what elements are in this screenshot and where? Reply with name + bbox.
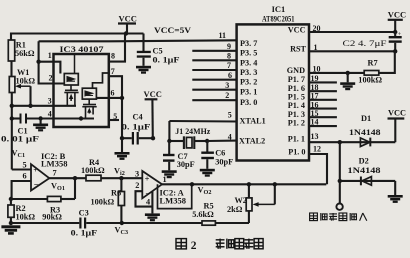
wire pin20 to VCC	[309, 31, 395, 33]
gate B glyph	[85, 91, 93, 96]
svg-text:2: 2	[135, 181, 139, 190]
resistor R3 feedback	[11, 178, 75, 221]
wire pin1 RST	[309, 50, 395, 52]
svg-text:2kΩ: 2kΩ	[227, 205, 243, 214]
svg-text:P1. 2: P1. 2	[288, 119, 305, 128]
wire Vo1 output line	[49, 177, 86, 179]
ground below C1/pin4	[33, 124, 48, 132]
wire R1 to W1	[10, 61, 12, 77]
svg-text:0. 1μF: 0. 1μF	[153, 55, 180, 64]
svg-text:−: −	[34, 180, 39, 190]
capacitor C3	[11, 208, 202, 237]
node pin4/mosfet2	[79, 116, 83, 120]
svg-text:100kΩ: 100kΩ	[81, 166, 105, 175]
wire pin10 GND	[309, 72, 348, 74]
wire pin6 feedback	[12, 181, 31, 199]
capacitor C7	[163, 141, 195, 170]
node pin6/pin7 tie	[120, 96, 124, 100]
node pin10/ground	[346, 71, 350, 75]
svg-text:P1. 7: P1. 7	[288, 75, 305, 84]
IC1 left inside labels	[239, 39, 266, 146]
svg-text:XTAL1: XTAL1	[240, 117, 266, 126]
IC1 right pin stubs 19-14	[309, 82, 337, 126]
svg-text:0. 01 μF: 0. 01 μF	[1, 134, 39, 143]
svg-text:AT89C2051: AT89C2051	[262, 14, 295, 24]
svg-text:2: 2	[225, 91, 229, 100]
svg-text:VCC: VCC	[388, 9, 406, 19]
wire long P3.7 line from IC3 to IC1	[39, 40, 237, 41]
wire Vo2 output line	[162, 183, 326, 185]
svg-text:1N4148: 1N4148	[349, 128, 381, 137]
svg-text:C5: C5	[153, 47, 163, 56]
wire IC3 pin4	[27, 117, 94, 119]
svg-text:0. 1μF: 0. 1μF	[71, 228, 98, 237]
node R6 bottom	[120, 221, 124, 225]
ground below C7	[162, 170, 177, 178]
wire pin4 stem	[151, 191, 153, 213]
caption 图2 电路原理图	[176, 239, 263, 252]
wire IC3 pin1	[39, 62, 61, 74]
svg-text:8: 8	[227, 51, 231, 60]
capacitor C4	[122, 113, 154, 145]
svg-text:P3. 7: P3. 7	[240, 39, 257, 48]
svg-text:C6: C6	[215, 149, 225, 158]
wire C4 left to ground	[121, 138, 123, 152]
op-amp IC2:B	[23, 151, 68, 191]
IC1 right inside labels	[287, 25, 307, 156]
IC1 right pin numbers	[311, 24, 322, 154]
svg-text:C3: C3	[79, 208, 89, 217]
svg-text:9: 9	[227, 42, 231, 51]
svg-text:8: 8	[111, 52, 115, 61]
ground below C5	[136, 66, 151, 74]
wire D2 to ground	[394, 181, 396, 195]
svg-text:W2: W2	[235, 196, 247, 205]
svg-text:90kΩ: 90kΩ	[42, 212, 62, 221]
node R2 top	[9, 197, 13, 201]
node frame corner	[190, 182, 194, 186]
svg-text:4: 4	[48, 110, 52, 119]
svg-text:6: 6	[23, 171, 27, 180]
svg-text:D2: D2	[359, 156, 369, 165]
svg-text:D1: D1	[361, 114, 371, 123]
capacitor C1	[1, 114, 39, 144]
resistor R2	[8, 199, 36, 223]
IC IC1 AT89C2051 box	[237, 24, 309, 160]
potentiometer W2	[227, 184, 275, 223]
svg-text:+: +	[398, 31, 402, 38]
node VCC junction	[124, 31, 128, 35]
output MOSFET A	[64, 85, 78, 106]
svg-text:IC3 40107: IC3 40107	[60, 44, 105, 54]
wire XTAL1 pin5	[169, 120, 236, 123]
svg-text:P3. 1: P3. 1	[240, 88, 257, 97]
pin number labels IC3 left	[48, 51, 53, 118]
svg-text:GND: GND	[287, 66, 305, 75]
gate A glyph	[67, 77, 75, 82]
node wiper top	[273, 182, 277, 186]
svg-text:1N4148: 1N4148	[348, 166, 381, 175]
svg-text:P1. 0: P1. 0	[288, 147, 305, 156]
node crystal left	[167, 139, 171, 143]
diode D1	[340, 114, 396, 147]
svg-text:1: 1	[48, 51, 52, 60]
svg-text:2: 2	[49, 74, 53, 83]
pin number labels IC3 right	[111, 52, 118, 121]
svg-text:R5: R5	[204, 201, 214, 210]
wire pin10 ground stem	[347, 73, 349, 82]
svg-text:P1. 3: P1. 3	[288, 110, 305, 119]
node C4 left	[120, 136, 124, 140]
svg-text:10kΩ: 10kΩ	[16, 77, 36, 86]
op-amp IC2:A	[135, 169, 167, 206]
svg-text:7: 7	[111, 67, 115, 76]
wire D1 to VCC	[394, 119, 396, 143]
svg-text:VCC: VCC	[388, 108, 406, 117]
potentiometer W1	[9, 68, 35, 106]
IC IC3 40107 outer box	[54, 54, 109, 127]
wire left rail below W1	[11, 93, 13, 170]
svg-text:+: +	[145, 173, 150, 183]
svg-text:5: 5	[228, 110, 232, 119]
power VCC symbol top-left	[118, 14, 137, 34]
wire gate A vdd	[74, 54, 76, 74]
svg-text:0. 1μF: 0. 1μF	[122, 123, 151, 132]
node W2 top	[247, 182, 251, 186]
svg-text:P1. 5: P1. 5	[288, 92, 305, 101]
svg-text:LM358: LM358	[160, 195, 186, 205]
node pin1 tap	[36, 60, 40, 64]
svg-text:XTAL2: XTAL2	[239, 136, 265, 145]
svg-text:56kΩ: 56kΩ	[15, 49, 35, 58]
capacitor C6	[201, 141, 233, 169]
svg-text:5: 5	[23, 160, 27, 169]
node R2 bottom	[9, 221, 13, 225]
svg-text:7: 7	[227, 61, 231, 70]
svg-text:LM358: LM358	[41, 158, 67, 168]
output MOSFET B	[82, 99, 96, 118]
svg-text:30pF: 30pF	[215, 157, 233, 166]
power VCC symbol above C4	[144, 89, 162, 138]
svg-text:R7: R7	[368, 59, 378, 68]
wire IC3 pin8 to VCC rail	[109, 34, 125, 62]
svg-text:C2 4. 7μF: C2 4. 7μF	[343, 38, 387, 48]
ground below C4	[115, 152, 130, 160]
resistor R7	[348, 59, 383, 85]
svg-text:R6: R6	[111, 188, 121, 197]
capacitor C5	[137, 34, 180, 66]
svg-text:5.6kΩ: 5.6kΩ	[192, 210, 214, 219]
power VCC symbol top right	[388, 9, 406, 32]
ground below C6	[200, 169, 215, 177]
node clamp top	[338, 140, 342, 144]
svg-text:7: 7	[53, 168, 57, 177]
resistor R5	[192, 201, 249, 225]
svg-text:P3. 0: P3. 0	[240, 98, 257, 107]
IC1 left pin stubs	[192, 51, 236, 100]
svg-text:VCC: VCC	[119, 14, 137, 24]
capacitor C2	[343, 31, 402, 51]
wire XTAL2 pin4	[207, 140, 237, 142]
svg-text:4: 4	[146, 197, 150, 206]
wire IC3 pin5 stub	[109, 119, 119, 121]
wire IC3 pin3	[12, 105, 76, 107]
svg-text:100kΩ: 100kΩ	[91, 197, 115, 206]
svg-text:VCC: VCC	[288, 25, 306, 34]
svg-text:10kΩ: 10kΩ	[16, 212, 36, 221]
svg-text:C4: C4	[133, 113, 143, 122]
svg-text:P3. 4: P3. 4	[240, 58, 257, 67]
svg-text:11: 11	[219, 31, 227, 40]
svg-text:12: 12	[313, 144, 321, 153]
wire P1.0 pin12 to Vo2	[309, 154, 327, 184]
svg-text:100kΩ: 100kΩ	[358, 75, 382, 84]
wire pin4 to ground	[40, 119, 42, 124]
wire IC3 pin7 down to C4	[109, 76, 122, 138]
node wiper/pin3	[28, 104, 32, 108]
svg-text:VCC=5V: VCC=5V	[154, 25, 192, 35]
svg-text:6: 6	[228, 71, 232, 80]
resistor R6	[91, 178, 125, 223]
svg-text:13: 13	[311, 132, 319, 141]
gate B of IC3	[82, 88, 96, 99]
ground below R2	[1, 225, 20, 234]
svg-text:4: 4	[228, 133, 232, 142]
node rail/pin3	[10, 104, 14, 108]
wire C2 down to R7	[379, 51, 395, 73]
svg-text:P3. 5: P3. 5	[240, 49, 257, 58]
svg-text:RST: RST	[290, 44, 306, 53]
svg-text:3: 3	[48, 96, 52, 105]
svg-text:J1 24MHz: J1 24MHz	[175, 127, 210, 136]
node clamp bottom	[338, 179, 342, 183]
wire P3.7 feed to pins 1,2 of IC3	[39, 41, 65, 83]
resistor R4	[81, 158, 142, 181]
IC1 left pin numbers	[219, 31, 233, 142]
svg-text:+: +	[33, 164, 38, 174]
node rail/C1	[10, 116, 14, 120]
wire gate B input from pin7	[93, 73, 109, 88]
node crystal right	[205, 139, 209, 143]
wire analog input line	[339, 142, 341, 203]
power VCC symbol right (clamp)	[388, 108, 406, 118]
node Vo1/R3	[73, 176, 77, 180]
crystal J1	[169, 121, 210, 149]
node pin20/VCC	[393, 30, 397, 34]
input terminal circle	[336, 204, 342, 210]
svg-text:P3. 3: P3. 3	[240, 68, 257, 77]
svg-text:1: 1	[163, 175, 167, 184]
label analog signal input (Chinese)	[310, 213, 367, 221]
node pin4/ground	[38, 116, 42, 120]
svg-text:6: 6	[111, 89, 115, 98]
resistor R1	[8, 40, 35, 61]
wire IC3 pin6 stub	[96, 97, 122, 99]
wire top VCC rail	[11, 34, 144, 41]
ground below D2	[388, 195, 403, 203]
node Vi2	[119, 176, 123, 180]
svg-text:2: 2	[191, 240, 197, 252]
svg-text:3: 3	[135, 169, 139, 178]
svg-text:P1. 1: P1. 1	[288, 135, 305, 144]
svg-text:P3. 2: P3. 2	[240, 78, 257, 87]
gate A of IC3	[64, 74, 78, 86]
label frame IC2:A	[158, 184, 192, 208]
svg-text:VCC: VCC	[144, 89, 162, 99]
node C4 right	[151, 136, 155, 140]
svg-text:30pF: 30pF	[177, 160, 195, 169]
ground below IC2:A pin4	[145, 213, 160, 221]
node pin1/C2	[393, 49, 397, 53]
wire pin13 P1.1 to clamp node	[309, 141, 340, 143]
wire pin2 jog	[136, 191, 153, 206]
wire rail to pin5	[12, 168, 31, 170]
svg-text:3: 3	[225, 81, 229, 90]
ground below pin10	[340, 82, 355, 90]
diode D2	[340, 156, 395, 185]
